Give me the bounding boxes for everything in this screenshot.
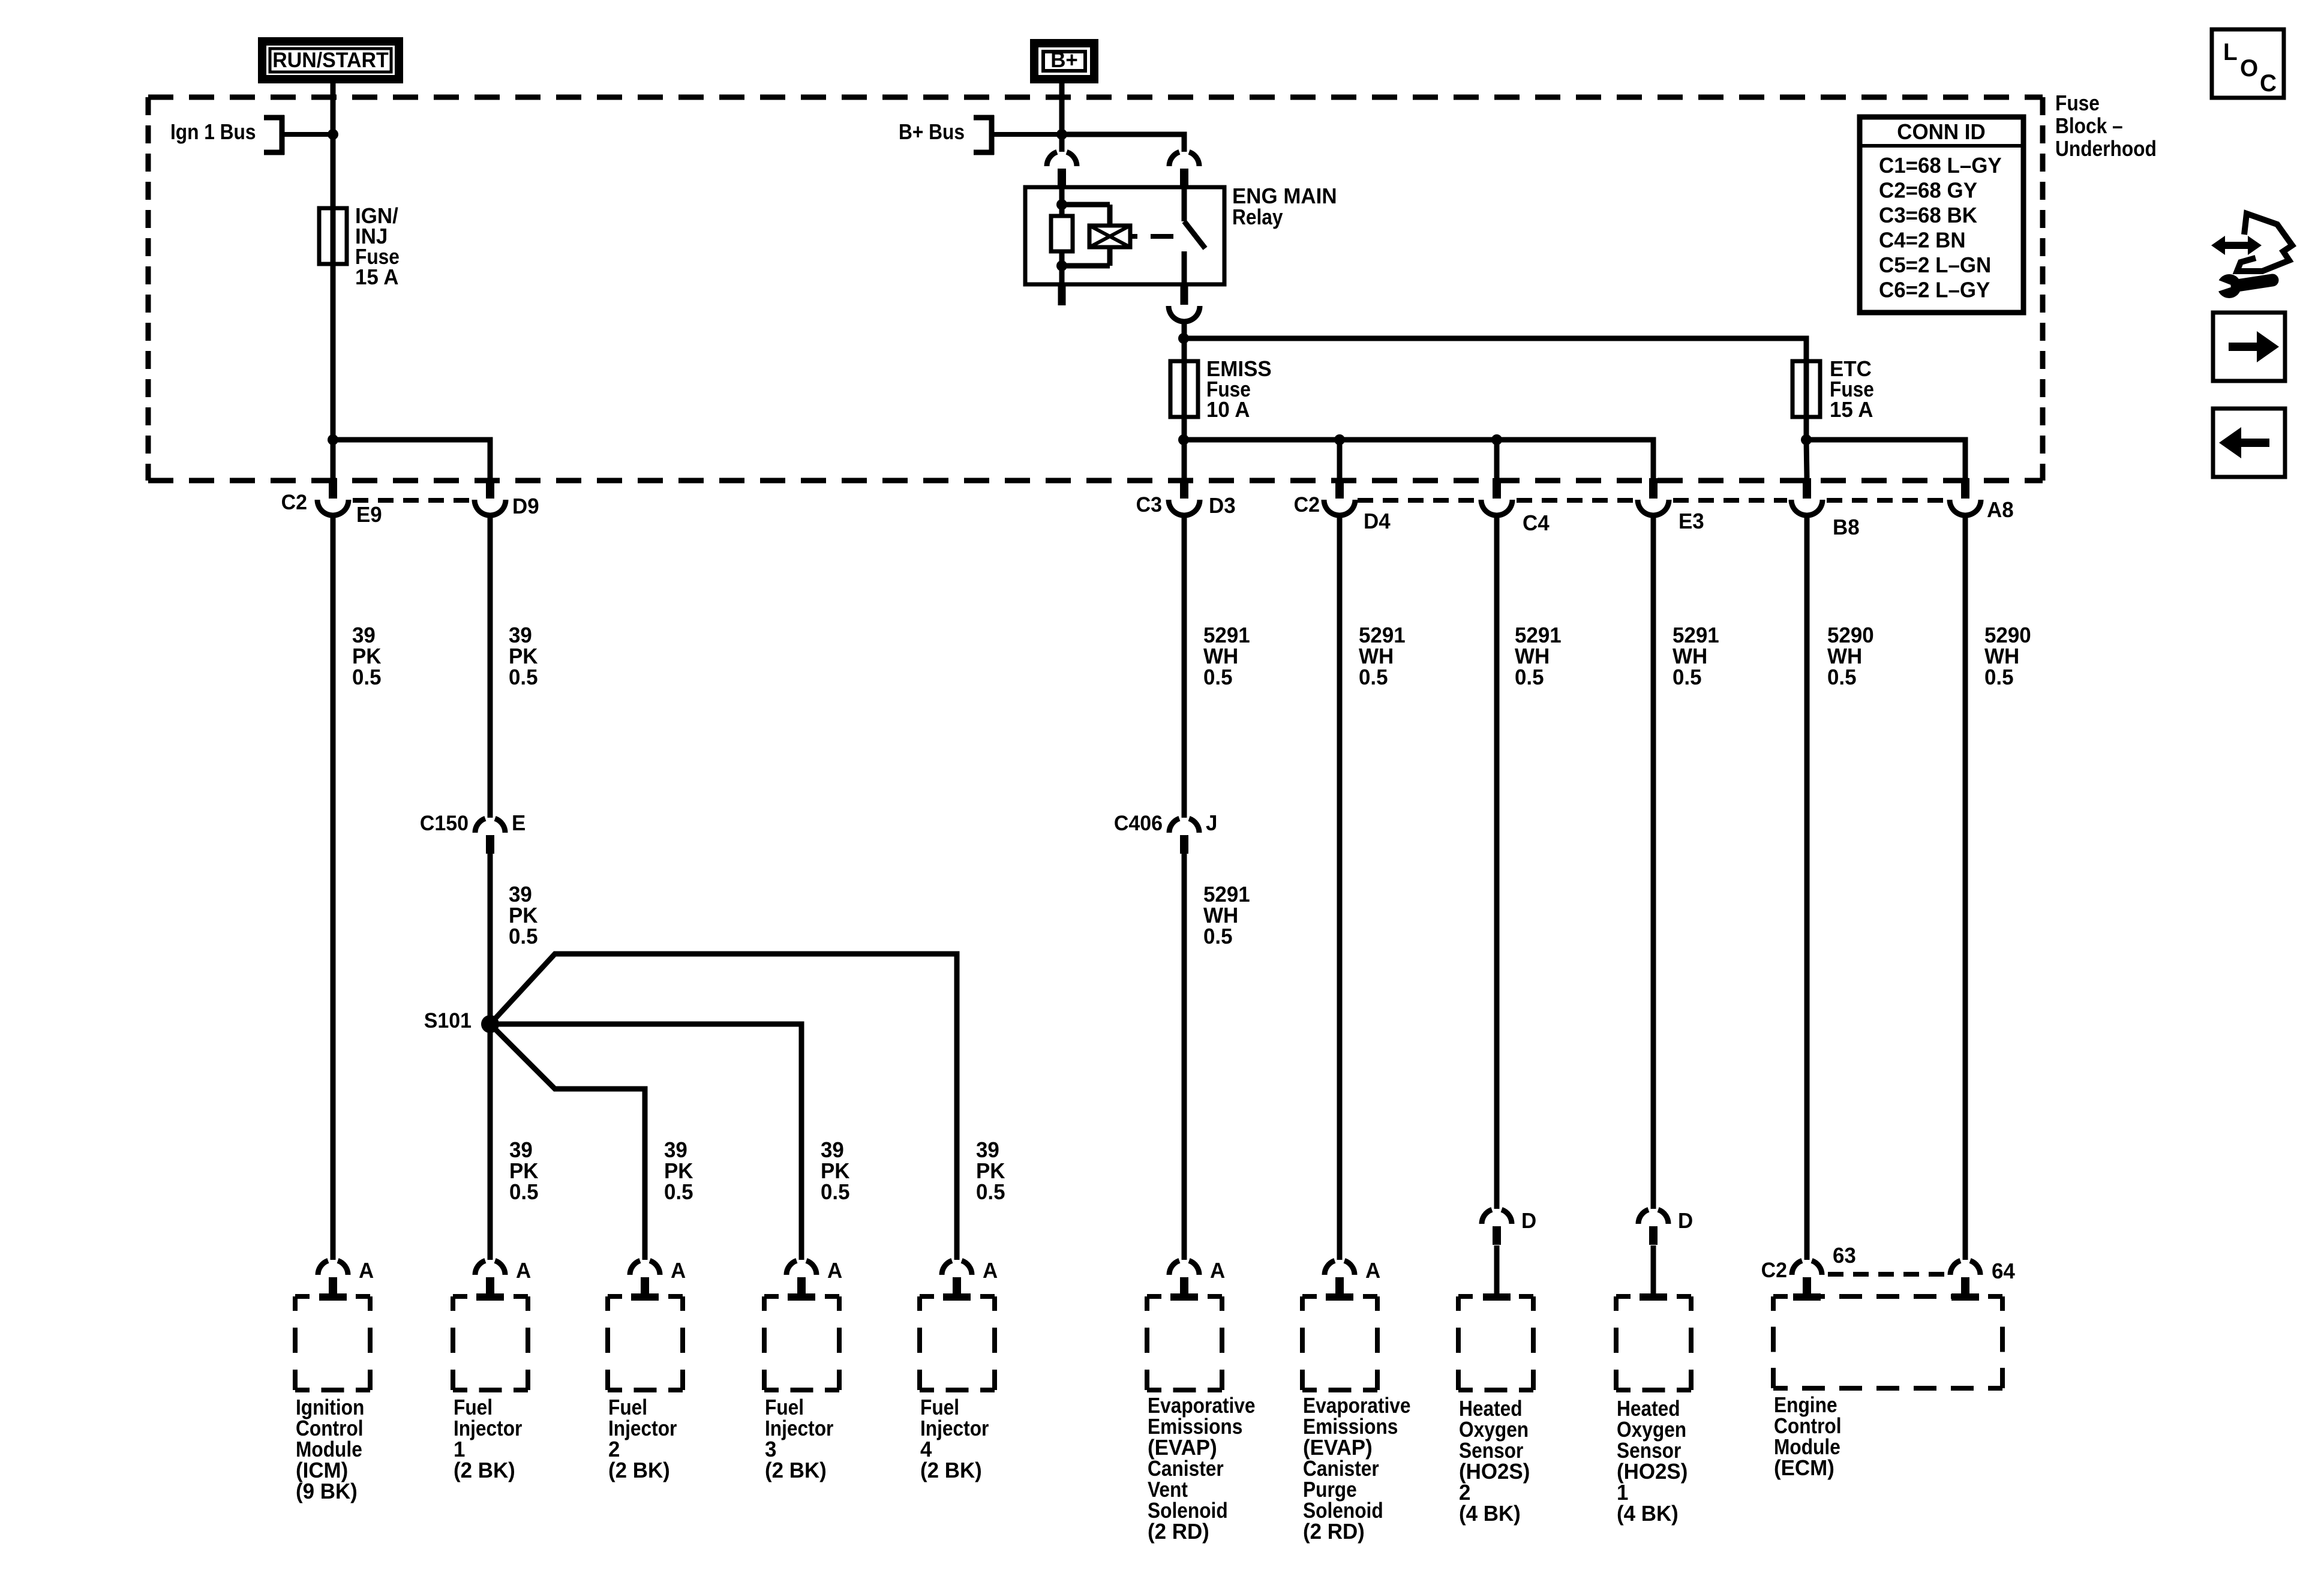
bus tap B+ Bus: [989, 115, 995, 155]
wire relay output to EMISS node: [1182, 322, 1187, 338]
wire C4 to HO2S2: [1494, 516, 1500, 1209]
svg-text:0.5: 0.5: [1827, 665, 1857, 690]
wire C150 to splice S101: [488, 851, 493, 1024]
svg-text:B8: B8: [1833, 515, 1860, 540]
CONN ID table: [1860, 117, 2023, 313]
component Fuel Injector 4 box: [920, 1294, 934, 1299]
svg-text:(4 BK): (4 BK): [1459, 1502, 1521, 1526]
wire ETC feed to A8: [1806, 440, 1965, 478]
svg-text:Underhood: Underhood: [2055, 137, 2157, 161]
svg-text:C3=68 BK: C3=68 BK: [1879, 203, 1977, 228]
connector injector3 pin A: [786, 1260, 797, 1275]
connector pin A8 (fuse block): [1961, 478, 1969, 499]
connector dashed link D4-A8: [1358, 498, 1373, 503]
fuse IGN/INJ 15A: [331, 208, 336, 264]
svg-text:C2=68 GY: C2=68 GY: [1879, 178, 1977, 203]
connector pin E3 (fuse block): [1649, 478, 1658, 499]
component EVAP canister vent solenoid box: [1147, 1294, 1161, 1299]
wire B8 to ECM pin 63: [1804, 516, 1810, 1260]
connector dashed link E9-D9: [353, 498, 368, 503]
svg-text:(2 BK): (2 BK): [920, 1458, 982, 1483]
svg-text:D4: D4: [1364, 509, 1391, 534]
svg-text:RUN/START: RUN/START: [272, 49, 389, 73]
svg-text:ENG MAIN: ENG MAIN: [1232, 184, 1337, 209]
svg-text:C2: C2: [1761, 1259, 1787, 1283]
wire B+ node to relay switch pin: [1062, 134, 1184, 152]
svg-text:C150: C150: [420, 812, 469, 836]
connector EVAP vent pin A: [1169, 1260, 1179, 1275]
wire B8 drop: [1806, 440, 1807, 478]
svg-text:0.5: 0.5: [509, 924, 538, 949]
svg-text:C2: C2: [1294, 494, 1320, 517]
wire S101 to injector4: [490, 954, 957, 1260]
svg-text:C: C: [2260, 70, 2277, 97]
wire D3 drop: [1182, 440, 1187, 478]
svg-text:D: D: [1678, 1209, 1693, 1233]
svg-text:L: L: [2223, 38, 2238, 65]
wire S101 to injector2: [490, 1024, 645, 1260]
wire feed split to E9: [331, 440, 336, 478]
svg-text:C3: C3: [1136, 494, 1162, 517]
svg-text:0.5: 0.5: [509, 665, 538, 690]
svg-text:(2 RD): (2 RD): [1303, 1520, 1365, 1544]
svg-text:0.5: 0.5: [352, 665, 382, 690]
power tap RUN/START box: [258, 37, 403, 83]
svg-text:D9: D9: [512, 494, 539, 519]
connector C150 pin E: [475, 818, 485, 833]
wire E9 to ICM: [331, 516, 336, 1260]
wire S101 to injector3: [490, 1024, 801, 1260]
wire D3 to C406: [1182, 516, 1187, 818]
connector relay output pin (cup): [1181, 286, 1188, 305]
wire B+ node to relay coil pin: [1059, 134, 1065, 152]
svg-text:(2 BK): (2 BK): [454, 1458, 515, 1483]
component Fuel Injector 2 box: [608, 1294, 622, 1299]
component Ignition Control Module box: [295, 1294, 310, 1299]
fuse ETC 15A: [1804, 361, 1809, 417]
wire HO2S2 pin to box: [1494, 1245, 1500, 1293]
svg-text:(9 BK): (9 BK): [296, 1479, 358, 1504]
svg-text:0.5: 0.5: [1203, 665, 1233, 690]
svg-text:64: 64: [1992, 1259, 2015, 1284]
wire HO2S1 pin to box: [1651, 1245, 1656, 1293]
wrench navigation icon: [2211, 236, 2262, 255]
component Engine Control Module box: [1773, 1294, 1788, 1299]
svg-text:0.5: 0.5: [1515, 665, 1544, 690]
svg-text:10 A: 10 A: [1206, 398, 1250, 422]
svg-text:(2 BK): (2 BK): [608, 1458, 670, 1483]
component HO2S 1 box: [1616, 1294, 1631, 1299]
svg-text:C4: C4: [1523, 511, 1550, 536]
connector HO2S1 pin D: [1638, 1209, 1649, 1224]
svg-text:(ECM): (ECM): [1774, 1456, 1834, 1481]
svg-text:J: J: [1206, 811, 1217, 836]
connector ECM pin 64: [1950, 1260, 1960, 1275]
connector injector2 pin A: [630, 1260, 640, 1275]
svg-text:(EVAP): (EVAP): [1148, 1436, 1217, 1460]
svg-text:A: A: [827, 1259, 842, 1283]
wire node to IGN/INJ fuse: [331, 134, 336, 208]
component Fuel Injector 3 box: [764, 1294, 779, 1299]
wire relay output to ETC fuse: [1184, 338, 1806, 361]
connector pin C4 (fuse block): [1493, 478, 1501, 499]
svg-text:E3: E3: [1679, 509, 1704, 534]
connector HO2S2 pin D: [1482, 1209, 1492, 1224]
node relay output split: [1178, 333, 1189, 344]
node EMISS feed split: [1178, 434, 1189, 445]
forward arrow icon: [2213, 313, 2285, 381]
svg-text:0.5: 0.5: [976, 1180, 1005, 1205]
wire D4 drop: [1337, 440, 1343, 478]
svg-text:C2: C2: [281, 491, 307, 515]
svg-text:C4=2 BN: C4=2 BN: [1879, 228, 1966, 253]
wire feed split to D9 drop: [333, 440, 490, 478]
svg-text:Block –: Block –: [2055, 114, 2123, 138]
component EVAP canister purge solenoid box: [1302, 1294, 1317, 1299]
svg-text:15 A: 15 A: [355, 265, 398, 290]
wire IGN/INJ fuse to feed node: [331, 264, 336, 440]
wire D4 to EVAP purge solenoid: [1337, 516, 1343, 1260]
svg-text:(EVAP): (EVAP): [1303, 1436, 1373, 1460]
connector ICM pin A: [318, 1260, 328, 1275]
svg-text:A: A: [671, 1259, 686, 1283]
node ignition feed split: [328, 434, 338, 445]
svg-text:S101: S101: [424, 1010, 472, 1033]
svg-text:A8: A8: [1987, 498, 2014, 523]
connector C3 pin D3 (fuse block): [1180, 478, 1188, 499]
wire EMISS fuse to feed node: [1182, 417, 1187, 440]
svg-text:Fuse: Fuse: [2055, 91, 2100, 115]
svg-text:0.5: 0.5: [1359, 665, 1388, 690]
svg-text:C5=2 L–GN: C5=2 L–GN: [1879, 253, 1991, 278]
svg-text:0.5: 0.5: [664, 1180, 693, 1205]
connector dashed link 63-64: [1828, 1272, 1843, 1277]
svg-text:A: A: [1210, 1259, 1225, 1283]
svg-text:D3: D3: [1209, 494, 1236, 518]
svg-text:0.5: 0.5: [509, 1180, 539, 1205]
wire C406 to EVAP vent solenoid: [1182, 851, 1187, 1260]
connector EVAP purge pin A: [1325, 1260, 1335, 1275]
svg-text:B+ Bus: B+ Bus: [899, 120, 965, 144]
component Fuel Injector 1 box: [453, 1294, 467, 1299]
svg-text:Relay: Relay: [1232, 205, 1283, 229]
svg-text:D: D: [1521, 1209, 1536, 1233]
node ETC feed split: [1801, 434, 1812, 445]
svg-text:(2 BK): (2 BK): [765, 1458, 827, 1483]
svg-text:C6=2 L–GY: C6=2 L–GY: [1879, 278, 1990, 302]
fuse EMISS 10A: [1182, 338, 1187, 361]
component HO2S 2 box: [1458, 1294, 1473, 1299]
LOC navigation icon: [2212, 29, 2284, 98]
svg-text:Ign 1 Bus: Ign 1 Bus: [170, 120, 256, 144]
connector injector4 pin A: [942, 1260, 952, 1275]
wire ETC fuse to feed node: [1804, 417, 1809, 440]
fuse block - underhood dashed outline: [148, 95, 173, 100]
svg-text:B+: B+: [1050, 48, 1078, 73]
connector pin B8 (fuse block): [1803, 478, 1811, 499]
svg-text:CONN ID: CONN ID: [1897, 120, 1985, 145]
connector C2 pin E9 (fuse block): [329, 478, 337, 499]
node D4 tap: [1334, 434, 1345, 445]
back arrow icon: [2213, 409, 2285, 477]
svg-text:C1=68 L–GY: C1=68 L–GY: [1879, 154, 2002, 178]
relay ENG MAIN: [1025, 187, 1224, 284]
svg-text:0.5: 0.5: [1984, 665, 2014, 690]
node C4 tap: [1491, 434, 1502, 445]
wire B+ to B+Bus node: [1059, 83, 1065, 134]
wire E3 to HO2S1: [1651, 516, 1656, 1209]
wire RUN/START to Ign1Bus node: [331, 83, 336, 134]
svg-text:A: A: [359, 1259, 374, 1283]
connector ECM pin 63: [1792, 1260, 1802, 1275]
svg-text:0.5: 0.5: [1673, 665, 1702, 690]
wire S101 to injector1: [488, 1024, 493, 1260]
connector C2 pin D4 (fuse block): [1335, 478, 1344, 499]
wire C4 drop: [1494, 440, 1500, 478]
wire D9 to C150: [488, 516, 493, 818]
connector relay switch pin (cap): [1169, 152, 1179, 166]
svg-text:E9: E9: [356, 503, 382, 527]
svg-text:63: 63: [1833, 1244, 1856, 1268]
svg-text:0.5: 0.5: [821, 1180, 850, 1205]
svg-text:E: E: [512, 811, 526, 836]
connector pin D9 (fuse block): [486, 478, 494, 499]
node Ign 1 Bus junction: [328, 129, 338, 140]
connector C406 pin J: [1169, 818, 1179, 833]
wire EMISS feed bus: [1184, 440, 1653, 478]
node B+ bus junction: [1056, 129, 1067, 140]
svg-text:O: O: [2240, 55, 2258, 82]
svg-text:A: A: [516, 1259, 531, 1283]
svg-text:A: A: [1365, 1259, 1380, 1283]
svg-text:(2 RD): (2 RD): [1148, 1520, 1209, 1544]
connector injector1 pin A: [475, 1260, 485, 1275]
wire A8 to ECM pin 64: [1963, 516, 1968, 1260]
svg-text:A: A: [983, 1259, 998, 1283]
power tap B+ box: [1030, 39, 1098, 83]
svg-text:(4 BK): (4 BK): [1617, 1502, 1679, 1526]
bus tap Ign 1 Bus: [280, 115, 285, 155]
svg-text:C406: C406: [1114, 812, 1163, 836]
connector relay coil pin (cap): [1047, 152, 1057, 166]
svg-text:0.5: 0.5: [1203, 924, 1233, 949]
svg-text:15 A: 15 A: [1830, 398, 1873, 422]
splice S101: [481, 1015, 499, 1033]
